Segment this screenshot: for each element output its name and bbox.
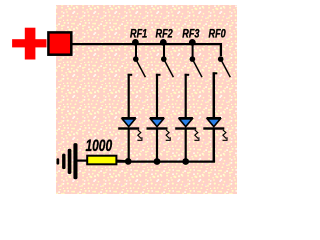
wire: top supply rail <box>72 44 221 56</box>
svg-text:RF0: RF0 <box>209 27 226 41</box>
junction node on rail col1 <box>132 39 139 46</box>
LED D1 <box>118 117 142 140</box>
wire: switch S3 lower contact to LED D3 <box>185 74 190 119</box>
junction node on rail col3 <box>189 39 196 46</box>
resistor R1 <box>87 156 116 165</box>
switch S1 <box>133 44 145 77</box>
junction node on rail col2 <box>160 39 167 46</box>
schematic sheet background <box>56 5 237 194</box>
wire: switch S1 lower contact to LED D1 <box>128 74 133 119</box>
LED D4 <box>203 117 227 140</box>
wire: resistor to bus node <box>116 160 128 163</box>
wire: LED D4 cathode to bus <box>213 130 216 162</box>
switch S3 <box>190 44 202 77</box>
svg-text:RF3: RF3 <box>182 27 199 41</box>
wire: switch S4 lower contact to LED D4 <box>213 72 218 119</box>
wire: LED D2 cathode to bus <box>156 130 158 162</box>
wire: switch S2 lower contact to LED D2 <box>156 74 161 119</box>
junction node on bus col3 <box>182 158 189 165</box>
power pin (red square) <box>48 32 71 54</box>
power source plus symbol <box>12 28 46 60</box>
wire: bottom bus <box>117 160 215 162</box>
ground symbol <box>57 143 78 179</box>
LED D2 <box>147 117 171 140</box>
junction node on bus col1 <box>125 158 132 165</box>
wire: LED D1 cathode to bus <box>128 130 130 162</box>
svg-text:RF2: RF2 <box>156 27 173 41</box>
wire: ground to resistor <box>77 160 87 162</box>
junction node on bus col2 <box>154 158 161 165</box>
svg-text:1000: 1000 <box>86 137 113 155</box>
switch S4 <box>218 56 230 77</box>
switch S2 <box>161 44 173 77</box>
LED D3 <box>175 117 199 140</box>
svg-text:RF1: RF1 <box>130 27 147 41</box>
wire: LED D3 cathode to bus <box>185 130 187 162</box>
